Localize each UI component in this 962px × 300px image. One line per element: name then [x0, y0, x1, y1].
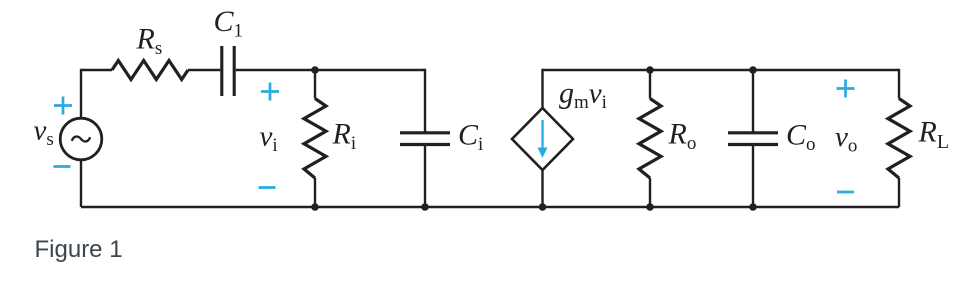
- svg-text:gmvi: gmvi: [559, 77, 607, 114]
- wire: dependent source bottom stub: [541, 170, 543, 207]
- svg-text:vs: vs: [34, 115, 54, 151]
- wire: right vertical top (top rail to R_L): [898, 69, 900, 99]
- arrow of G1 (downward, cyan): [538, 120, 548, 158]
- node A junction dot (top of R_i): [311, 66, 319, 74]
- svg-text:Co: Co: [786, 119, 816, 156]
- wire: C_o bottom vertical: [752, 145, 754, 208]
- junction dot R_o bottom: [646, 203, 654, 211]
- capacitor C_1: [222, 46, 234, 96]
- wire: R_s to C_1: [188, 69, 220, 71]
- svg-text:Ro: Ro: [668, 118, 697, 155]
- polarity plus of v_s: [54, 97, 72, 115]
- wire: top rail from left corner to R_s: [81, 69, 112, 71]
- wire: top rail output segment: [543, 69, 900, 71]
- wire: left vertical bottom (v_s to ground rail): [80, 159, 82, 207]
- svg-text:C1: C1: [214, 5, 244, 42]
- dependent current source G1 (diamond): [512, 108, 573, 170]
- polarity minus of v_i: [259, 186, 276, 189]
- wire: C_i top vertical: [424, 69, 426, 133]
- wire: right vertical bottom (R_L to ground rail): [898, 178, 900, 207]
- resistor R_L: [888, 99, 910, 179]
- polarity plus of v_o: [837, 80, 855, 98]
- junction dot C_i bottom: [421, 203, 429, 211]
- wire: R_o top stub: [649, 70, 651, 99]
- svg-text:Ci: Ci: [458, 119, 483, 156]
- svg-text:vo: vo: [835, 121, 857, 157]
- junction dot C_o top: [749, 66, 757, 74]
- capacitor C_o: [728, 133, 778, 145]
- wire: C_1 to node A: [236, 69, 315, 71]
- polarity minus of v_o: [837, 191, 854, 194]
- svg-text:vi: vi: [260, 121, 278, 157]
- voltage source v_s (circle with sine): [60, 118, 102, 160]
- resistor R_i: [304, 99, 326, 179]
- wire: R_i top stub: [314, 70, 316, 99]
- wire: node A to C_i corner: [315, 69, 425, 71]
- polarity minus of v_s: [54, 165, 71, 168]
- junction dot R_o top: [646, 66, 654, 74]
- polarity plus of v_i: [261, 83, 279, 101]
- junction dot G1 bottom: [539, 203, 547, 211]
- svg-text:RL: RL: [918, 116, 950, 154]
- svg-text:Rs: Rs: [136, 23, 163, 60]
- wire: left vertical top (top rail to v_s): [80, 69, 82, 119]
- resistor R_s: [112, 61, 188, 80]
- junction dot C_o bottom: [749, 203, 757, 211]
- capacitor C_i: [400, 133, 450, 145]
- wire: R_i bottom stub: [314, 178, 316, 207]
- wire: bottom ground rail: [81, 206, 899, 208]
- wire: R_o bottom stub: [649, 178, 651, 207]
- wire: C_i bottom vertical: [424, 145, 426, 208]
- junction dot R_i bottom: [311, 203, 319, 211]
- wire: dependent source top stub: [541, 69, 543, 109]
- svg-text:Figure 1: Figure 1: [35, 236, 123, 263]
- svg-text:Ri: Ri: [332, 117, 357, 154]
- wire: C_o top vertical: [752, 70, 754, 133]
- resistor R_o: [639, 99, 661, 179]
